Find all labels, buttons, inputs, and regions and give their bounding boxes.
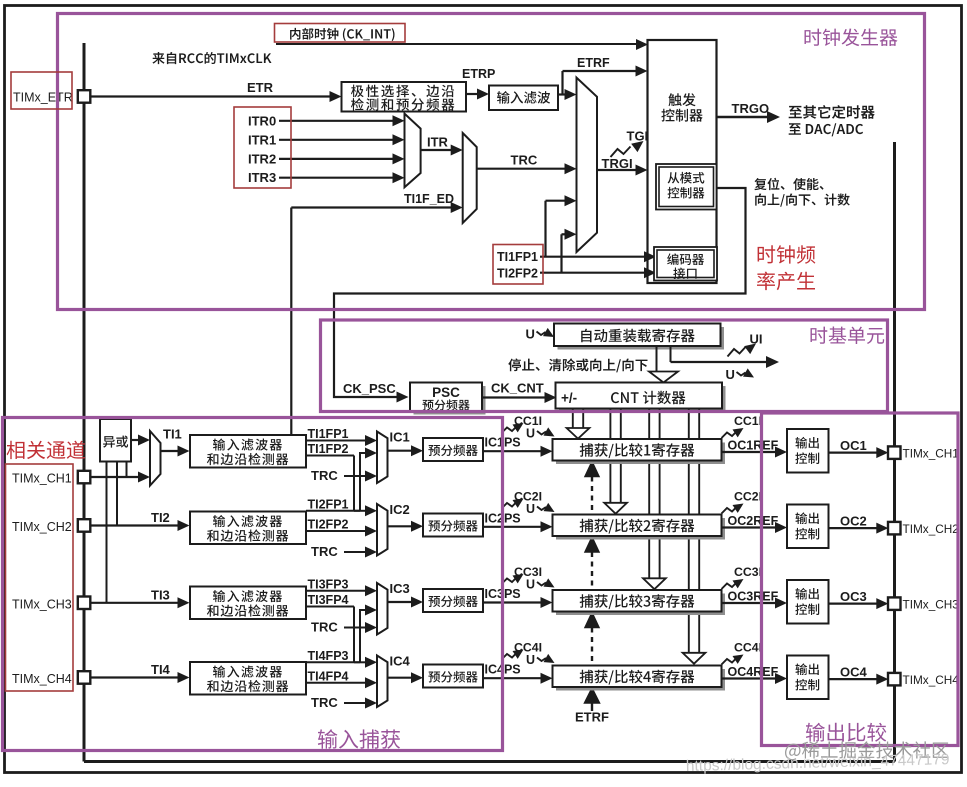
t [213,515,282,527]
text 至 DAC/ADC [789,123,863,136]
frame 输入捕获/相关通道 region [3,418,503,751]
interrupt arrow CC1I right [722,431,738,438]
svg-text:U: U [726,367,735,382]
svg-text:TIMx_CH3: TIMx_CH3 [12,597,72,611]
dashed arrow capture/compare register 3 to register 2 [585,537,599,552]
text 停止、清除或向上/向下 [508,358,647,372]
text 复位、使能、 [754,178,823,190]
dashed arrow capture/compare register 2 to register 1 [585,462,599,477]
title 率产生 [757,272,815,291]
svg-text:TIMx_ETR: TIMx_ETR [13,91,73,105]
text 来自RCC的TIMxCLK [152,52,271,64]
wire ITR1 [279,139,394,141]
wire TRGO [717,116,769,118]
t [580,670,695,685]
svg-text:U: U [526,502,535,516]
event arrow U capture 2 [537,507,546,511]
t [428,444,477,456]
wire TI4FP3 [306,661,360,663]
wire ITR0 [279,120,394,122]
interrupt arrow UI [728,347,746,357]
wire XOR tap to TI1 line [126,462,128,478]
t [580,519,695,534]
svg-text:TI1FP2: TI1FP2 [308,442,349,456]
svg-text:ITR1: ITR1 [248,132,276,147]
wire TI4FP3 up to IC3 mux [360,610,366,662]
wire TI1FP1 up to TRGI mux [544,201,546,257]
interrupt arrow CC4I left [502,653,518,660]
svg-text:ETRF: ETRF [577,56,610,70]
arrow ETRF into capture/compare register 4 [585,688,600,703]
svg-text:CC2I: CC2I [734,490,762,504]
event arrow U capture 3 [537,582,546,586]
block 输出控制 channel 3 [787,580,829,624]
text 向上/向下、计数 [755,194,850,207]
wire XOR output [131,439,139,441]
pin TIMx_CH4 output [888,673,901,686]
wire TI3FP4 [306,606,354,608]
highlight box ITR0-ITR3 [234,107,291,188]
svg-text:U: U [526,327,535,342]
t [207,453,288,465]
svg-text:ETR: ETR [247,80,274,95]
wire TI3FP4 down to IC4 mux [353,607,355,663]
wire TRC [344,702,366,704]
svg-text:ETRP: ETRP [462,67,495,81]
wire IC4 [388,677,412,679]
event arrow U on update line [737,372,746,376]
block 捕获/比较4寄存器 [556,669,725,691]
wire TRGI to slave mode controller [597,169,637,171]
wire TRC [344,627,366,629]
svg-text:TIMx_CH2: TIMx_CH2 [903,522,959,536]
interrupt arrow CC3I left [502,577,518,584]
svg-text:TIMx_CH4: TIMx_CH4 [903,673,960,687]
wire TI1FP2 [306,455,354,457]
svg-text:U: U [526,653,535,667]
wire TRC [344,551,366,553]
svg-text:TIMx_CH1: TIMx_CH1 [903,446,959,460]
svg-text:TI4FP4: TI4FP4 [308,669,349,683]
block 异或 (XOR) [100,419,131,462]
watermark 稀土掘金 [785,741,949,760]
wire TI1FP1 to encoder [540,256,645,258]
svg-text:OC4: OC4 [840,665,868,680]
block 预分频器 channel 1 [423,438,483,461]
pin TIMx_CH2 output [888,522,901,535]
interrupt arrow CC2I right [722,507,738,514]
block 输入滤波器和边沿检测器 channel 2 [190,512,306,545]
pin TIMx_CH3 output [888,597,901,610]
wire ETRP [466,93,478,95]
mux IC1 input selector [377,432,388,484]
wire IC3 [388,601,412,603]
wire IC1 [388,450,412,452]
mux IC2 input selector [377,504,388,556]
wire TI3FP3 [306,590,366,592]
svg-text:CC4I: CC4I [734,641,762,655]
t [673,268,696,280]
wire TI1 to filter [161,450,179,452]
svg-text:TI1F_ED: TI1F_ED [404,192,454,206]
svg-text:TIMx_CH3: TIMx_CH3 [903,597,960,611]
svg-text:ITR2: ITR2 [248,151,276,166]
svg-text:TI2FP2: TI2FP2 [497,267,538,281]
wire CK_CNT [482,396,545,398]
t [668,187,705,199]
wire OC3 to pin [829,602,878,604]
svg-text:TIMx_CH1: TIMx_CH1 [12,472,72,486]
t [795,603,819,615]
wire OC2 to pin [829,527,878,529]
svg-text:TI2FP1: TI2FP1 [308,497,349,511]
svg-text:OC1: OC1 [840,438,867,453]
wire TI1F_ED horizontal [291,206,452,208]
svg-text:ETRF: ETRF [575,710,609,725]
svg-text:TRGI: TRGI [602,156,633,171]
svg-text:IC1: IC1 [390,430,410,445]
title 时钟频 [758,245,816,264]
t [667,253,704,265]
wire TI1F_ED vertical from channel 1 detector [290,208,292,436]
svg-text:CC1I: CC1I [734,414,762,428]
wire ITR2 [279,158,394,160]
hollow arrow auto-reload to CNT counter [656,346,658,372]
title 相关通道 [7,441,86,460]
block 输出控制 channel 4 [787,656,829,700]
t [422,399,469,410]
mux ITR selector [405,114,421,188]
t [796,663,819,675]
title 输出比较 [806,723,886,742]
svg-text:OC2: OC2 [840,514,867,529]
block 预分频器 channel 4 [423,665,483,688]
wire TIMx_CH2 TI2 [90,524,178,526]
block 捕获/比较2寄存器 [556,518,725,540]
mux IC4 input selector [377,656,388,708]
mux TRC selector [463,133,477,223]
block PSC 预分频器 [414,386,486,415]
wire TRC to big mux [477,168,565,170]
svg-text:TI4: TI4 [151,662,171,677]
hollow arrow CNT to capture/compare register 3 [648,409,650,579]
wire TI1FP2 down to IC2 mux [353,456,355,511]
svg-text:TI2: TI2 [151,510,170,525]
event arrow U capture 4 [537,658,546,662]
t [103,436,128,448]
svg-text:IC4: IC4 [390,654,411,669]
svg-text:U: U [526,427,535,441]
svg-text:CC3I: CC3I [734,565,762,579]
wire OC4 to pin [829,678,878,680]
pin TIMx_CH3 input [78,597,91,610]
t [796,512,819,524]
wire TI1FP1 [306,440,366,442]
pin TIMx_CH1 output [888,446,901,459]
svg-text:CK_CNT: CK_CNT [491,381,544,396]
wire bottom bus connector [84,760,895,763]
svg-text:OC3: OC3 [840,589,867,604]
wire IC1PS to capture register [483,450,541,452]
t [668,93,695,106]
title 时基单元 [811,327,885,345]
svg-text:TIMx_CH4: TIMx_CH4 [12,672,72,686]
highlight box TIMx_CH1-CH4 [6,464,74,691]
pin TIMx_CH4 input [78,671,91,684]
interrupt arrow CC1I left [502,426,518,433]
wire ETR from pin to polarity block [90,95,331,97]
block 捕获/比较1寄存器 [556,443,725,465]
block 输出控制 channel 2 [787,505,829,549]
t [497,91,550,104]
t [795,452,819,464]
block 预分频器 channel 2 [423,514,483,537]
svg-text:IC3: IC3 [390,581,410,596]
frame 时基单元 region [321,320,888,412]
wire IC4PS to capture register [483,677,541,679]
svg-text:OC4REF: OC4REF [728,665,779,679]
t [611,391,686,405]
svg-text:TRC: TRC [311,620,338,635]
wire IC3PS to capture register [483,601,541,603]
block 输入滤波器和边沿检测器 channel 1 [190,435,306,468]
event arrow U into auto-reload register [537,332,546,336]
t [213,590,282,602]
block 输入滤波器和边沿检测器 channel 4 [190,662,306,695]
wire XOR tap to TI3 line [106,462,108,603]
svg-text:TIMx_CH2: TIMx_CH2 [12,520,72,534]
wire OC1REF [722,451,777,453]
svg-text:ITR3: ITR3 [248,170,276,185]
t [428,595,477,607]
wire IC2PS to capture register [483,526,541,528]
svg-text:+/-: +/- [561,391,577,406]
t [581,329,695,343]
interrupt arrow CC4I right [722,658,738,665]
text 至其它定时器 [789,105,875,119]
interrupt arrow CC2I left [502,502,518,509]
block 编码器接口 (encoder interface) [654,247,717,281]
block 极性选择、边沿检测和预分频器 [342,82,467,112]
svg-text:TRC: TRC [511,153,538,168]
wire right pin bus [893,142,896,762]
wire TI2FP1 [306,510,360,512]
wire ETRF vertical [561,71,563,95]
wire TIMx_CH4 TI4 [90,676,178,678]
highlight box TIMx_ETR [11,72,72,109]
title 时钟发生器 [805,29,898,47]
wire ITR3 [279,177,394,179]
t [207,680,288,692]
t [668,172,705,184]
wire ITR to TRC mux [421,149,452,151]
block 捕获/比较3寄存器 [556,594,725,616]
block 输出控制 channel 1 [787,429,829,473]
wire TIMx_CH3 TI3 [90,602,178,604]
svg-text:TRGO: TRGO [732,101,770,116]
wire IC2 [388,525,412,527]
svg-text:ITR0: ITR0 [248,113,276,128]
svg-text:IC2: IC2 [390,502,410,517]
t [428,520,477,532]
svg-text:TI3: TI3 [151,587,170,602]
wire ETRF to trigger controller [563,70,639,72]
interrupt arrow TGI [611,147,631,158]
mux TRGI source selector [577,78,598,252]
block 输入滤波 (ETR input filter) [489,86,558,111]
t [207,604,288,616]
svg-text:OC3REF: OC3REF [728,590,779,604]
wire TIMx_CH1 to mux [90,476,139,478]
svg-text:TRC: TRC [311,695,338,710]
mux TI1 XOR selector [150,431,161,486]
t [795,528,819,540]
svg-text:UI: UI [750,332,763,347]
wire ETRF to big mux [558,93,566,95]
svg-text:CK_PSC: CK_PSC [343,381,396,396]
svg-text:U: U [526,578,535,592]
frame 时钟发生器 region [58,14,925,310]
block 输入滤波器和边沿检测器 channel 3 [190,587,306,620]
wire TI2FP2 up to TRGI mux [560,234,562,272]
svg-text:PSC: PSC [432,385,460,400]
t [428,671,477,683]
svg-text:TI3FP4: TI3FP4 [308,593,349,607]
title 输入捕获 [318,729,400,748]
mux IC3 input selector [377,583,388,635]
t [351,85,454,98]
svg-text:TI1FP1: TI1FP1 [308,427,349,441]
svg-text:TI3FP3: TI3FP3 [308,577,349,591]
wire OC1 to pin [829,452,878,454]
svg-text:TI1: TI1 [163,427,182,442]
t [351,98,454,111]
block CNT 计数器 (counter) [559,386,726,412]
svg-text:OC2REF: OC2REF [728,514,779,528]
wire OC3REF [722,602,777,604]
wire TI2FP2 [306,530,366,532]
hollow arrow CNT to capture/compare register 4 [688,409,690,653]
t [213,439,282,451]
wire TI2FP1 up to IC1 mux [360,453,366,511]
highlight box TI1FP1/TI2FP2 [493,245,543,285]
block 从模式控制器 (slave mode controller) [656,164,717,210]
t [661,109,702,122]
wire TI3FP4 elbow into IC4 mux [354,661,366,663]
wire TI2FP2 to encoder [540,272,645,274]
svg-text:TI2FP2: TI2FP2 [308,518,349,532]
t [795,679,819,691]
svg-text:TRC: TRC [311,468,338,483]
hollow arrow CNT to capture/compare register 2 [609,409,611,503]
wire XOR tap to TI2 line [116,462,118,526]
wire TI1FP2 elbow into IC2 mux [354,510,366,512]
pin TIMx_CH2 input [78,519,91,532]
t [213,666,282,678]
t [796,588,819,600]
svg-text:TRC: TRC [311,544,338,559]
svg-text:TI1FP1: TI1FP1 [497,250,538,264]
svg-text:ITR: ITR [427,135,449,150]
wire TRC [344,475,366,477]
block 自动重装载寄存器 (auto-reload register) [558,327,725,350]
svg-text:OC1REF: OC1REF [728,439,779,453]
text 内部时钟 (CK_INT) [290,28,394,41]
svg-text:TGI: TGI [627,129,649,144]
highlight box 内部时钟(CK_INT) [275,24,406,43]
wire 内部时钟 CK_INT to trigger controller [276,43,638,45]
hollow arrow CNT to capture/compare register 1 [572,409,574,429]
block 预分频器 channel 3 [423,589,483,612]
wire update event to right [671,361,767,363]
wire left pin bus [83,43,86,762]
t [207,529,288,541]
pin TIMx_ETR [78,90,91,103]
wire slave mode controller to prescaler CK_PSC [334,188,746,397]
dashed arrow capture/compare register 4 to register 3 [585,613,599,628]
pin TIMx_CH1 input [78,471,91,484]
block 触发控制器 (trigger controller) [648,40,717,283]
wire OC2REF [722,526,777,528]
t [580,443,695,458]
wire OC4REF [722,677,777,679]
t [796,437,819,449]
frame 输出比较 region [762,413,959,746]
svg-text:TI4FP3: TI4FP3 [308,649,349,663]
t [580,594,695,609]
interrupt arrow CC3I right [722,582,738,589]
wire TI4FP4 [306,682,366,684]
event arrow U capture 1 [537,431,546,435]
